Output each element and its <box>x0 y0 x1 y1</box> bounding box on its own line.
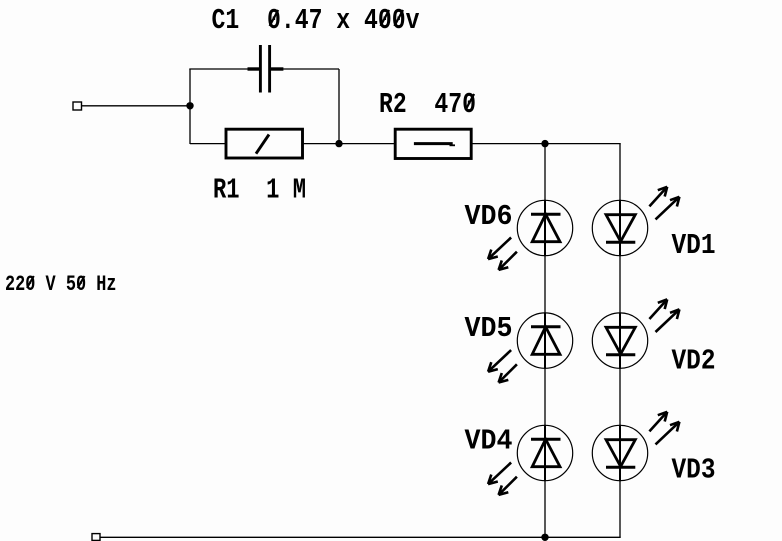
wire: bottom return <box>100 536 621 538</box>
label VD2 <box>672 345 716 378</box>
terminal X1 <box>73 102 82 110</box>
LED VD2 <box>592 299 679 368</box>
resistor R2 <box>395 129 471 158</box>
svg-text:VD3: VD3 <box>672 454 716 487</box>
wire: right branch vertical <box>338 69 340 144</box>
wire: node A to R1 <box>190 143 226 145</box>
label 220 V 50 Hz <box>5 272 117 297</box>
wire: X1 to node A <box>82 105 191 107</box>
wire: left branch vertical <box>189 69 191 144</box>
LED VD5 <box>488 312 573 382</box>
label VD6 <box>465 200 513 233</box>
label R2 value <box>379 88 476 121</box>
label VD1 <box>672 229 716 262</box>
svg-text:VD4: VD4 <box>465 425 513 458</box>
resistor R1 <box>226 129 303 158</box>
node D <box>541 534 548 541</box>
svg-text:R1 1 M: R1 1 M <box>213 174 306 207</box>
capacitor C1 <box>248 45 284 93</box>
node C <box>541 140 548 147</box>
label VD5 <box>465 312 513 345</box>
terminal X2 <box>92 534 100 541</box>
wire: right rail vertical <box>619 144 621 538</box>
LED VD3 <box>592 412 679 481</box>
svg-text:VD6: VD6 <box>465 200 513 233</box>
label R1 value <box>213 174 306 207</box>
node B <box>335 140 342 147</box>
svg-text:VD5: VD5 <box>465 312 513 345</box>
svg-text:VD1: VD1 <box>672 229 716 262</box>
LED VD1 <box>592 187 679 256</box>
wire: R2 to node C <box>471 143 545 145</box>
label C1 value <box>212 4 420 37</box>
wire: node B to R2 <box>339 143 395 145</box>
label VD3 <box>672 454 716 487</box>
wire: left rail vertical <box>544 144 546 538</box>
wire: top branch left of C1 <box>189 68 259 70</box>
label VD4 <box>465 425 513 458</box>
wire: R1 to node B <box>303 143 340 145</box>
svg-text:220 V 50 Hz: 220 V 50 Hz <box>5 272 117 297</box>
wire: top branch right of C1 <box>271 68 339 70</box>
svg-text:VD2: VD2 <box>672 345 716 378</box>
svg-text:C1 0.47 x 400v: C1 0.47 x 400v <box>212 4 420 37</box>
LED VD6 <box>488 200 573 270</box>
svg-text:R2 470: R2 470 <box>379 88 476 121</box>
node A <box>186 102 193 109</box>
wire: node C to right rail corner <box>545 143 621 145</box>
LED VD4 <box>488 425 573 495</box>
